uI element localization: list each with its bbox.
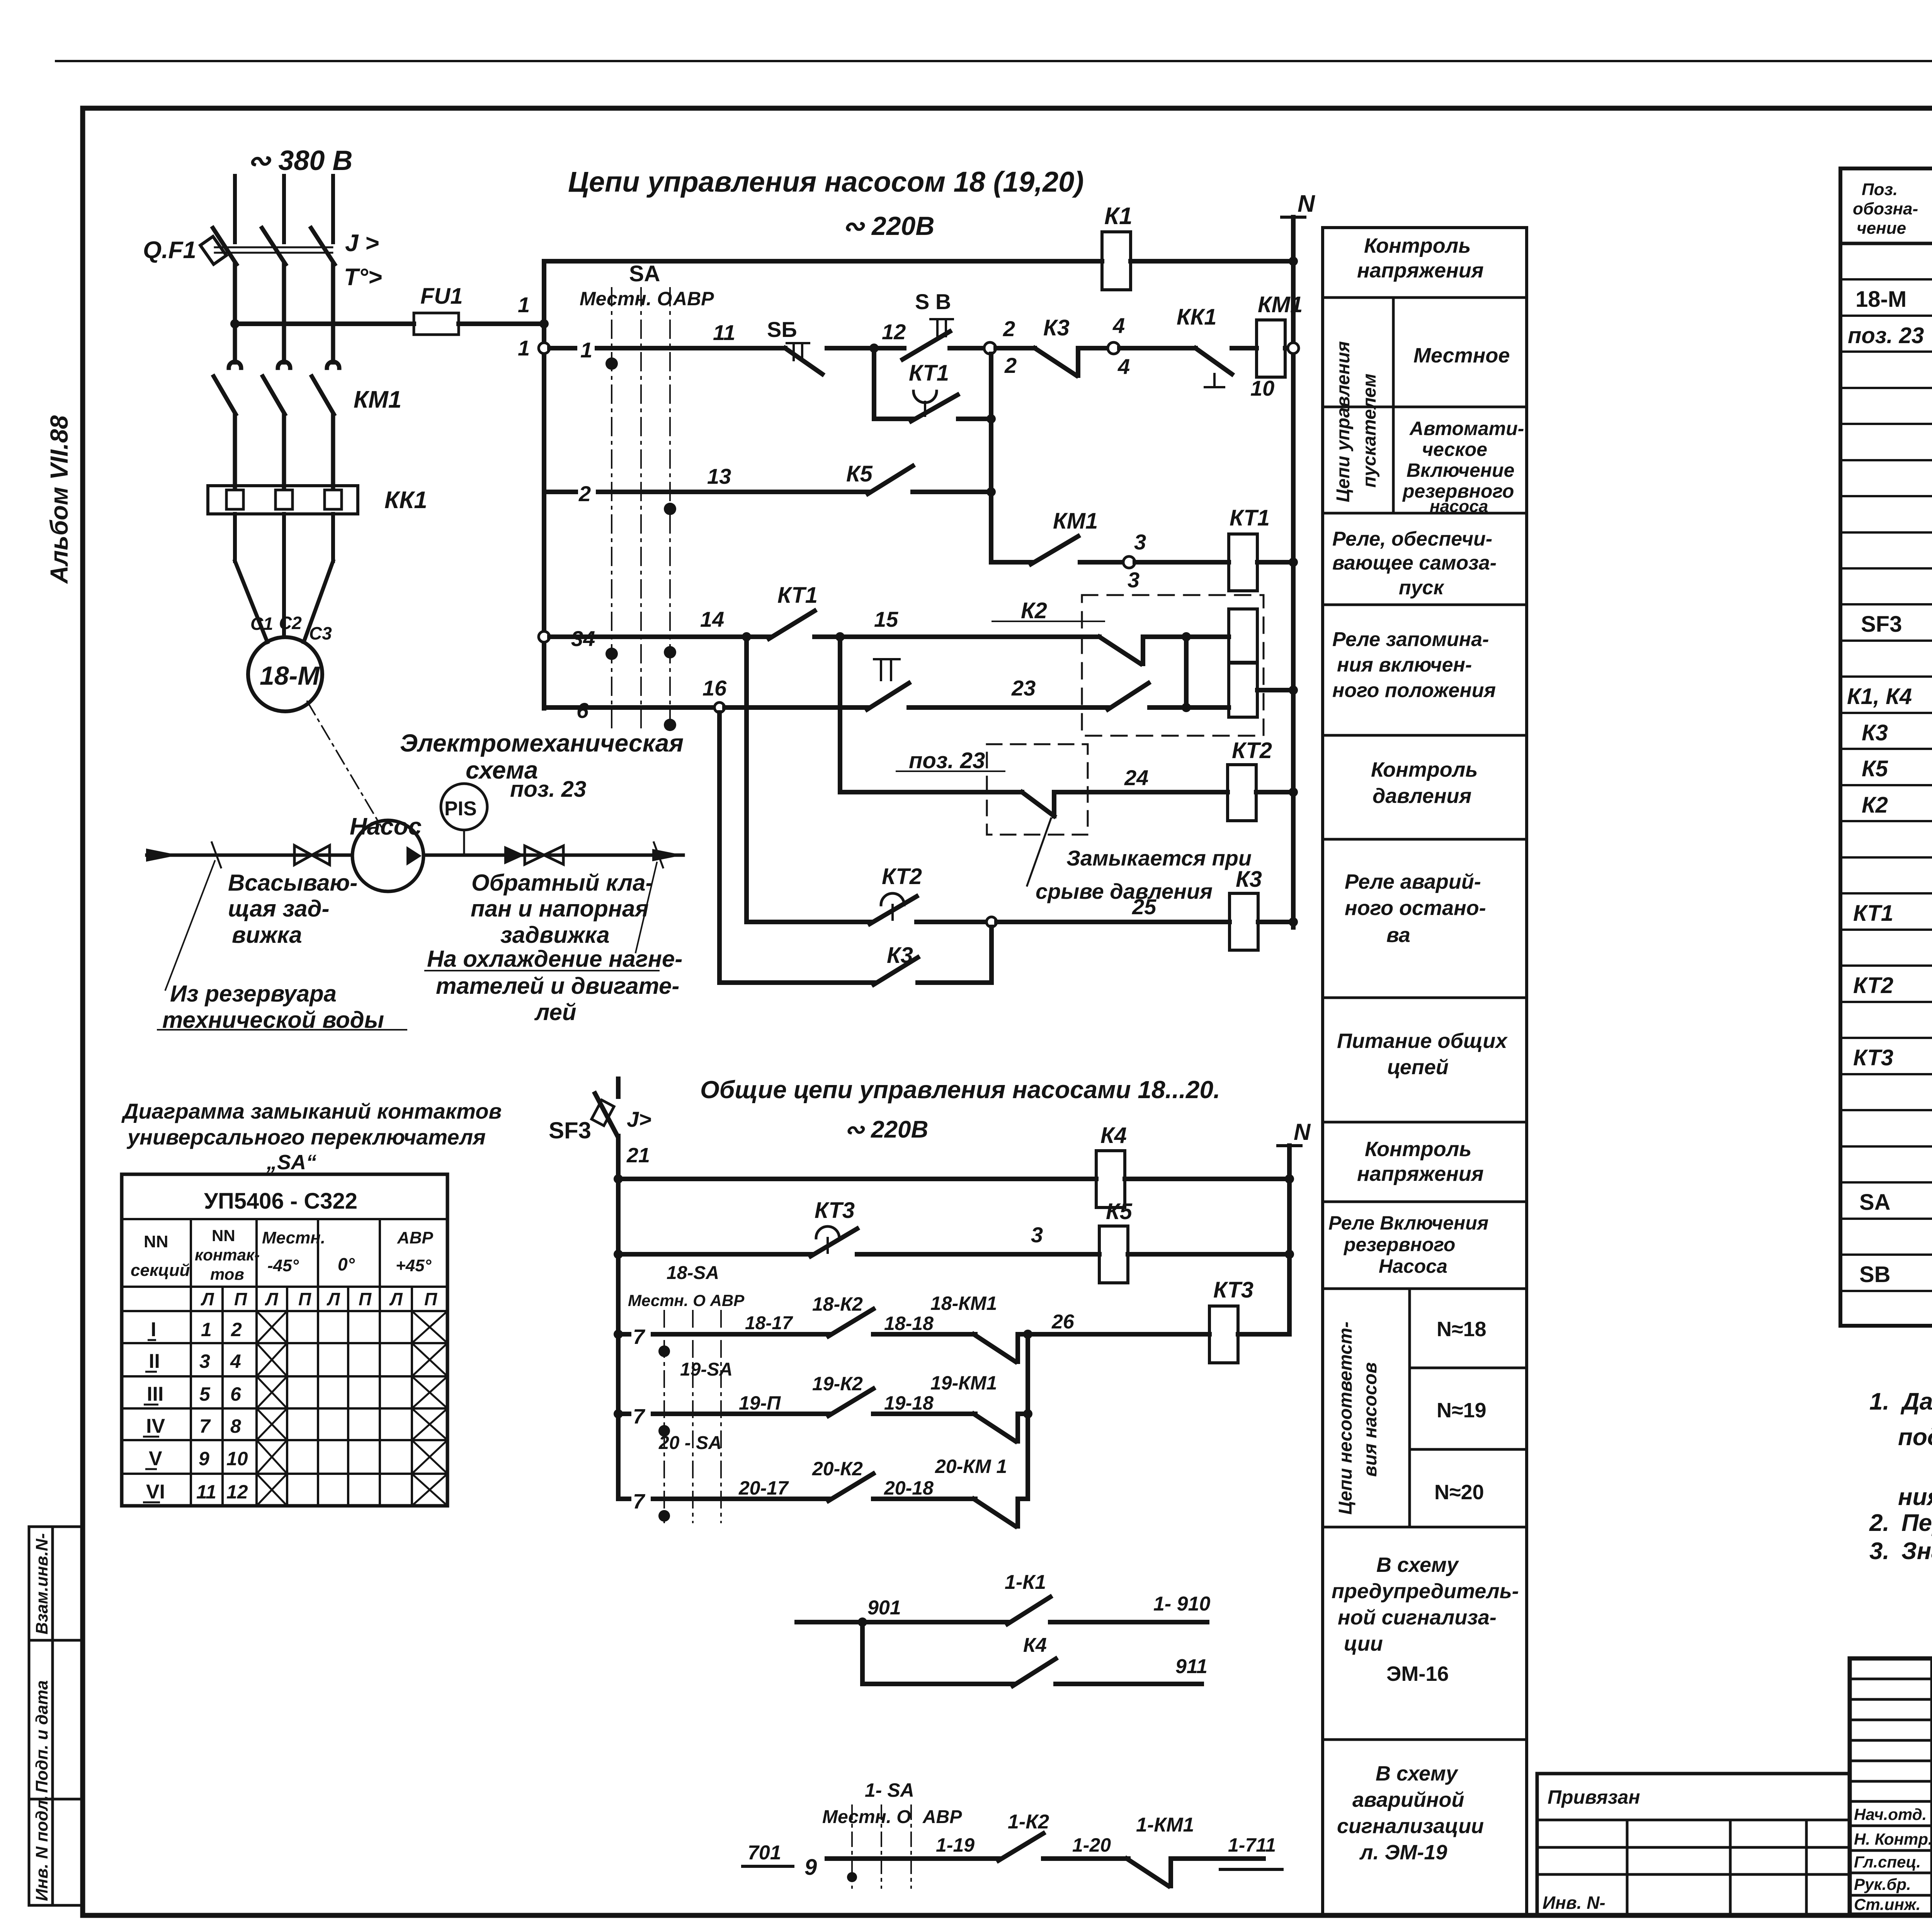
svg-text:SВ: SВ <box>1859 1262 1891 1287</box>
poz23 dashed enclosure <box>987 744 1088 835</box>
svg-text:N≈19: N≈19 <box>1437 1399 1486 1422</box>
wire rung 25 left <box>747 920 871 924</box>
suction gate valve <box>294 845 330 865</box>
K2 dashed enclosure <box>1082 595 1264 736</box>
svg-text:Контроль: Контроль <box>1365 1138 1471 1161</box>
svg-text:насоса: насоса <box>1430 497 1488 516</box>
node 4 terminal <box>1108 342 1119 354</box>
svg-text:КК1: КК1 <box>1177 304 1217 330</box>
svg-text:FU1: FU1 <box>420 284 463 309</box>
svg-text:1-К2: 1-К2 <box>1008 1811 1049 1833</box>
svg-text:Контроль: Контроль <box>1371 758 1478 781</box>
svg-text:19-SА: 19-SА <box>680 1359 733 1380</box>
relay coil K3 <box>1230 893 1258 950</box>
svg-text:Насоса: Насоса <box>1379 1255 1447 1277</box>
svg-text:-45°: -45° <box>267 1256 299 1275</box>
svg-text:ва: ва <box>1386 923 1410 947</box>
signature grid thin rows <box>1850 1678 1932 1680</box>
contact 18-KM1 <box>974 1334 1015 1362</box>
left attach part <box>1537 1774 1850 1915</box>
timer coil KT1 <box>1229 534 1257 591</box>
svg-text:пускателем: пускателем <box>1359 374 1380 488</box>
wire 14 <box>549 634 742 639</box>
stop button SB(stop) contact <box>785 348 822 374</box>
svg-text:SF3: SF3 <box>1861 612 1902 637</box>
svg-text:ческое: ческое <box>1422 439 1487 460</box>
svg-text:К4: К4 <box>1100 1123 1127 1148</box>
svg-text:7: 7 <box>633 1405 646 1428</box>
motor 18-M <box>248 637 322 711</box>
contact K2 NC <box>1099 637 1141 664</box>
svg-text:N: N <box>1298 190 1315 217</box>
svg-text:SА: SА <box>629 261 660 286</box>
svg-text:ЭМ-16: ЭМ-16 <box>1386 1662 1449 1685</box>
wire KT1 bypass <box>874 417 913 421</box>
two position relay K2 upper coil <box>1229 609 1257 662</box>
underline cooling note <box>425 970 659 971</box>
svg-text:ного остано-: ного остано- <box>1345 896 1486 920</box>
svg-text:PIS: PIS <box>444 798 477 820</box>
svg-text:Ст.инж.: Ст.инж. <box>1854 1895 1920 1913</box>
svg-text:поз. 23: поз. 23 <box>909 748 985 773</box>
svg-text:П: П <box>359 1289 372 1309</box>
svg-text:К1: К1 <box>1104 203 1133 230</box>
QF1 drive rectangle <box>200 236 226 264</box>
svg-text:лей: лей <box>534 999 577 1025</box>
svg-text:вижка: вижка <box>232 922 302 948</box>
svg-text:1-20: 1-20 <box>1072 1834 1111 1856</box>
svg-text:На охлаждение нагне-: На охлаждение нагне- <box>427 946 682 972</box>
selector dashed 1-SA <box>852 1805 911 1888</box>
svg-text:технической воды: технической воды <box>162 1007 384 1033</box>
svg-text:18-SА: 18-SА <box>667 1263 719 1283</box>
svg-text:Обратный кла-: Обратный кла- <box>471 870 653 896</box>
svg-text:Н. Контр.: Н. Контр. <box>1854 1830 1932 1848</box>
contact K2 second NO <box>1108 683 1148 709</box>
svg-text:КТ2: КТ2 <box>1232 738 1272 763</box>
svg-text:901: 901 <box>867 1597 901 1619</box>
svg-text:напряжения: напряжения <box>1357 259 1484 282</box>
wire 901 <box>797 1620 1009 1624</box>
svg-text:911: 911 <box>1175 1655 1207 1678</box>
svg-text:КМ1: КМ1 <box>1053 509 1098 534</box>
svg-text:срыве давления: срыве давления <box>1036 879 1213 903</box>
svg-text:давления: давления <box>1372 784 1471 808</box>
left bus vertical <box>542 261 546 708</box>
svg-text:Q.F1: Q.F1 <box>143 237 196 264</box>
rung 21 wire <box>618 1177 1096 1181</box>
contact 1-K1 <box>1007 1597 1050 1624</box>
svg-text:КТ1: КТ1 <box>777 583 818 608</box>
svg-text:пан и напорная: пан и напорная <box>471 896 649 922</box>
svg-text:К1, К4: К1, К4 <box>1847 684 1912 709</box>
thermal relay KK1 <box>208 486 358 514</box>
svg-text:Л: Л <box>265 1289 279 1309</box>
svg-text:1. Данная схема приведена: 1. Данная схема приведена для управления… <box>1869 1388 1932 1415</box>
contact K4 <box>1013 1659 1056 1686</box>
svg-text:IV: IV <box>146 1415 165 1437</box>
node 2 terminal <box>984 342 996 354</box>
svg-text:20-17: 20-17 <box>738 1477 789 1499</box>
wire K1 to N <box>1131 259 1293 264</box>
svg-text:9: 9 <box>199 1448 209 1469</box>
vertical up to rung25 <box>989 927 994 983</box>
svg-text:Местн. О: Местн. О <box>580 288 672 310</box>
svg-text:701: 701 <box>748 1842 781 1864</box>
svg-text:2: 2 <box>1004 353 1017 378</box>
svg-text:АВР: АВР <box>922 1807 962 1827</box>
junction to vertical 2 <box>986 414 996 423</box>
svg-text:резервного: резервного <box>1343 1234 1455 1255</box>
left bus common <box>616 1179 621 1499</box>
svg-text:18-17: 18-17 <box>745 1313 793 1333</box>
terminal junction rung25 <box>986 917 997 927</box>
svg-text:ции: ции <box>1344 1632 1383 1655</box>
svg-text:23: 23 <box>1011 676 1036 700</box>
svg-text:С2: С2 <box>279 613 302 633</box>
wire 24 left <box>840 790 1022 794</box>
svg-text:2: 2 <box>231 1319 242 1340</box>
svg-text:NN: NN <box>212 1226 235 1245</box>
wire to KT1 coil <box>1135 560 1229 565</box>
svg-text:Л: Л <box>201 1289 214 1309</box>
title block outer <box>1850 1658 1932 1915</box>
left margin stamp boxes <box>29 1527 83 1905</box>
contact K5 NO <box>868 466 913 494</box>
two position relay K2 lower coil <box>1229 663 1257 717</box>
svg-text:J >: J > <box>345 230 379 257</box>
svg-text:ного положения: ного положения <box>1332 679 1496 702</box>
svg-text:6: 6 <box>230 1383 241 1405</box>
leader line to reservoir note <box>165 861 215 990</box>
svg-text:КТ2: КТ2 <box>1853 973 1893 998</box>
start button SB contact <box>874 346 904 350</box>
row borders <box>1323 296 1527 299</box>
wires from KK1 to motor <box>235 514 333 642</box>
fuse FU1 <box>414 313 459 335</box>
svg-text:34: 34 <box>571 626 595 651</box>
svg-text:25: 25 <box>1132 895 1156 919</box>
wire 15 <box>840 634 1099 639</box>
svg-text:Местн.: Местн. <box>262 1228 325 1247</box>
svg-text:Гл.спец.: Гл.спец. <box>1854 1853 1921 1871</box>
N bus vertical <box>1291 217 1296 927</box>
svg-text:С3: С3 <box>309 623 332 643</box>
N bus common <box>1287 1146 1292 1334</box>
svg-text:7: 7 <box>633 1490 646 1513</box>
K2 label underline <box>992 621 1104 622</box>
svg-text:ния включен-: ния включен- <box>1337 654 1472 676</box>
svg-text:19-КМ1: 19-КМ1 <box>930 1372 997 1394</box>
leader line to cooling note <box>636 862 657 952</box>
rung 7a <box>618 1332 629 1337</box>
table horizontals <box>1840 242 1932 245</box>
svg-text:10: 10 <box>226 1448 248 1469</box>
svg-text:1: 1 <box>580 338 592 362</box>
contact KM1 aux NO <box>1031 536 1078 564</box>
svg-text:„SА“: „SА“ <box>266 1151 316 1174</box>
wire 701 stub <box>743 1865 793 1868</box>
timer coil KT2 <box>1228 765 1256 821</box>
svg-text:КТ3: КТ3 <box>815 1198 855 1223</box>
svg-text:1: 1 <box>518 293 530 317</box>
svg-text:КТ2: КТ2 <box>882 864 922 889</box>
svg-text:Реле аварий-: Реле аварий- <box>1345 870 1481 893</box>
svg-text:Автомати-: Автомати- <box>1409 418 1524 439</box>
svg-text:КТ3: КТ3 <box>1853 1045 1893 1070</box>
svg-text:3: 3 <box>1134 530 1146 554</box>
svg-text:J>: J> <box>627 1107 651 1131</box>
svg-text:V: V <box>149 1447 162 1470</box>
svg-text:18-К2: 18-К2 <box>812 1293 863 1315</box>
svg-text:напряжения: напряжения <box>1357 1162 1484 1185</box>
svg-text:3. Знак „1“ заменяется н: 3. Знак „1“ заменяется номером привода (… <box>1869 1538 1932 1565</box>
svg-text:П: П <box>234 1289 247 1309</box>
svg-text:∾ 220В: ∾ 220В <box>842 211 934 241</box>
wire 9 <box>827 1856 1000 1861</box>
svg-text:0°: 0° <box>338 1254 355 1274</box>
svg-text:7: 7 <box>199 1415 211 1437</box>
release button contact rung 16 <box>867 683 909 709</box>
svg-text:20-18: 20-18 <box>884 1477 934 1499</box>
terminal on rung 16 <box>714 702 724 713</box>
QF1 mechanical link crossbar <box>215 247 332 248</box>
svg-text:К5: К5 <box>1106 1199 1133 1224</box>
node 10 terminal <box>1288 343 1299 354</box>
rung 2 wire 13 <box>544 490 576 494</box>
svg-text:Диаграмма замыканий контакто: Диаграмма замыканий контактов <box>121 1099 502 1123</box>
rung 3.4 terminal <box>539 631 549 642</box>
svg-text:Всасываю-: Всасываю- <box>228 870 357 896</box>
svg-text:Цепи управления: Цепи управления <box>1333 341 1354 502</box>
svg-text:SБ: SБ <box>767 317 797 342</box>
svg-text:11: 11 <box>713 320 735 345</box>
pipe break slash right <box>654 842 663 867</box>
node on N <box>1289 257 1298 266</box>
svg-text:SА: SА <box>1859 1190 1891 1215</box>
power feed phase stubs ~380V <box>235 176 333 242</box>
svg-text:Электромеханическая: Электромеханическая <box>400 729 684 757</box>
check valve <box>504 846 525 864</box>
link vertical rungs 7 <box>1026 1334 1030 1499</box>
svg-text:24: 24 <box>1124 765 1148 790</box>
svg-text:КТ1: КТ1 <box>1853 901 1893 926</box>
svg-text:III: III <box>147 1383 163 1405</box>
underline reservoir note <box>158 1029 406 1031</box>
signature grid verticals <box>1930 1658 1932 1915</box>
pump pipe line <box>147 854 683 857</box>
svg-text:∾ 220В: ∾ 220В <box>844 1116 928 1143</box>
SA columns <box>190 1219 192 1506</box>
svg-text:+45°: +45° <box>396 1256 432 1275</box>
node 12 junction <box>869 344 879 353</box>
signature rows <box>1850 1825 1932 1827</box>
svg-text:Взам.инв.N-: Взам.инв.N- <box>32 1533 51 1634</box>
contact K3 NC <box>996 346 1035 350</box>
svg-text:15: 15 <box>874 607 898 631</box>
rung 7b <box>618 1412 629 1416</box>
svg-text:1: 1 <box>518 336 530 360</box>
svg-text:10: 10 <box>1250 376 1274 400</box>
SA subcolumns <box>221 1287 224 1506</box>
wire 1-711 underline <box>1220 1868 1282 1871</box>
svg-text:SF3: SF3 <box>549 1117 591 1143</box>
pipe break slash left <box>212 842 221 867</box>
vertical to K3 contact rung <box>717 713 722 983</box>
svg-text:2: 2 <box>1003 316 1015 341</box>
svg-text:К2: К2 <box>1021 598 1047 623</box>
junction rung2 <box>986 487 996 497</box>
pressure gauge PIS circle <box>441 784 487 830</box>
svg-text:1-711: 1-711 <box>1228 1834 1276 1856</box>
svg-text:универсального переключателя: универсального переключателя <box>126 1125 486 1149</box>
svg-text:19-П: 19-П <box>739 1392 781 1414</box>
X marks AVR-P <box>412 1311 447 1343</box>
svg-text:Местное: Местное <box>1413 344 1510 367</box>
svg-text:Подп. и дата: Подп. и дата <box>32 1680 51 1793</box>
SA switch dashed position lines <box>612 288 670 732</box>
svg-text:К5: К5 <box>846 461 873 486</box>
svg-text:21: 21 <box>626 1144 650 1167</box>
svg-text:Контроль: Контроль <box>1364 234 1471 257</box>
vertical divider nesootv cells <box>1408 1289 1411 1527</box>
flow arrow left <box>146 849 179 862</box>
svg-text:П: П <box>424 1289 437 1309</box>
contact KT2 NO time delay <box>870 896 917 924</box>
wire K3 rung <box>719 980 875 985</box>
svg-text:вающее самоза-: вающее самоза- <box>1332 552 1497 574</box>
column outer box <box>1323 228 1527 1915</box>
svg-text:КТ1: КТ1 <box>1230 505 1270 531</box>
svg-text:Т°>: Т°> <box>344 264 382 291</box>
svg-text:УП5406 - С322: УП5406 - С322 <box>204 1189 357 1214</box>
svg-text:Реле, обеспечи-: Реле, обеспечи- <box>1332 528 1492 550</box>
svg-text:К3: К3 <box>1236 867 1262 892</box>
branch vertical <box>860 1622 865 1684</box>
svg-text:1-К1: 1-К1 <box>1005 1571 1046 1594</box>
node at QF1 phase A <box>230 319 240 328</box>
svg-text:12: 12 <box>226 1481 248 1503</box>
junction node 15 <box>835 632 845 641</box>
svg-text:∾ 380 В: ∾ 380 В <box>247 145 352 176</box>
svg-text:S В: S В <box>915 289 951 314</box>
KM1 aux rung <box>991 560 1032 565</box>
svg-text:КТ3: КТ3 <box>1213 1277 1253 1303</box>
svg-text:18-М: 18-М <box>260 661 320 690</box>
svg-text:12: 12 <box>882 320 906 344</box>
wire 911 <box>862 1682 1014 1686</box>
node on N <box>1289 558 1298 567</box>
selector dashed lines 18SA <box>664 1311 721 1522</box>
svg-text:чение: чение <box>1857 219 1906 238</box>
SA header row line <box>122 1218 447 1220</box>
svg-text:20-К2: 20-К2 <box>812 1458 863 1480</box>
svg-text:ной сигнализа-: ной сигнализа- <box>1338 1606 1497 1629</box>
svg-text:аварийной: аварийной <box>1352 1788 1464 1811</box>
top wire to K1 <box>544 259 1102 264</box>
poz23 branch vertical <box>838 637 842 792</box>
svg-text:К4: К4 <box>1023 1634 1047 1656</box>
svg-text:Поз.: Поз. <box>1862 180 1898 199</box>
pressure switch contact poz23 <box>1022 792 1054 816</box>
relay coil K4 <box>1096 1151 1125 1207</box>
svg-text:NN: NN <box>144 1232 168 1251</box>
svg-text:16: 16 <box>702 676 727 700</box>
svg-text:II: II <box>149 1350 160 1372</box>
contact KT1 NO time-delay <box>911 395 957 421</box>
svg-text:Местн. О: Местн. О <box>822 1807 911 1827</box>
node at bus feed <box>539 319 549 328</box>
timer coil KT3 <box>1209 1306 1238 1363</box>
svg-text:6: 6 <box>577 698 589 723</box>
svg-text:В схему: В схему <box>1376 1762 1459 1785</box>
svg-text:задвижка: задвижка <box>500 922 610 948</box>
svg-text:18-КМ1: 18-КМ1 <box>930 1293 997 1314</box>
table outer border <box>1840 168 1932 1326</box>
svg-text:Л: Л <box>327 1289 340 1309</box>
svg-text:11: 11 <box>196 1481 216 1503</box>
svg-text:20-КМ 1: 20-КМ 1 <box>935 1456 1007 1477</box>
svg-text:КК1: КК1 <box>384 487 427 514</box>
rung 6 wire 16 <box>544 705 713 710</box>
wire feed from QF1 to bus <box>235 321 414 326</box>
svg-text:Нач.отд.: Нач.отд. <box>1854 1805 1927 1823</box>
contact 1-K2 <box>998 1833 1043 1861</box>
svg-text:4: 4 <box>1117 354 1130 379</box>
leader to contact note <box>1027 818 1051 886</box>
svg-text:1-19: 1-19 <box>936 1834 975 1856</box>
flow arrow right <box>652 849 683 861</box>
svg-text:N≈20: N≈20 <box>1434 1481 1484 1504</box>
svg-text:20 - SА: 20 - SА <box>658 1433 722 1453</box>
svg-text:VI: VI <box>146 1481 165 1503</box>
svg-text:2. Перечень элементов: 2. Перечень элементов приведен на 1 насо… <box>1869 1510 1932 1536</box>
contact KK1 NC thermal <box>1119 346 1196 350</box>
svg-text:подачи технической воды н: подачи технической воды на охлаждение на… <box>1898 1424 1932 1451</box>
svg-text:щая зад-: щая зад- <box>228 896 330 922</box>
svg-text:19-К2: 19-К2 <box>812 1373 863 1395</box>
svg-text:I: I <box>151 1318 156 1341</box>
svg-text:К3: К3 <box>1043 315 1070 340</box>
junction above K2 coils <box>1182 632 1191 641</box>
contact KT3 NO time delay <box>811 1229 857 1256</box>
N terminal tick <box>1282 216 1305 219</box>
svg-text:ния аналогичны.: ния аналогичны. <box>1898 1484 1932 1510</box>
contactor coil KM1 <box>1257 320 1285 377</box>
contact 1-KM1 <box>1127 1859 1168 1886</box>
discharge gate valve <box>525 846 563 864</box>
svg-text:26: 26 <box>1051 1311 1075 1333</box>
svg-text:4: 4 <box>1112 313 1125 338</box>
svg-text:Включение: Включение <box>1406 459 1514 481</box>
svg-text:К5: К5 <box>1862 756 1888 781</box>
svg-text:КМ1: КМ1 <box>354 386 401 413</box>
svg-text:3: 3 <box>199 1350 210 1372</box>
svg-text:1- SА: 1- SА <box>865 1779 914 1801</box>
svg-text:2: 2 <box>578 481 591 506</box>
svg-text:КТ1: КТ1 <box>909 361 949 386</box>
svg-text:19-18: 19-18 <box>884 1392 934 1414</box>
svg-text:9: 9 <box>804 1855 817 1880</box>
svg-text:К2: К2 <box>1862 793 1888 818</box>
svg-text:Цепи управления насосом 18: Цепи управления насосом 18 (19,20) <box>568 166 1084 198</box>
wire 26 <box>1028 1332 1209 1337</box>
contact 19-K2 <box>828 1389 873 1416</box>
selector dots main circuit <box>605 357 618 370</box>
svg-text:18-18: 18-18 <box>884 1313 934 1334</box>
SA rows <box>122 1310 447 1312</box>
rung 1 terminal <box>539 343 549 354</box>
